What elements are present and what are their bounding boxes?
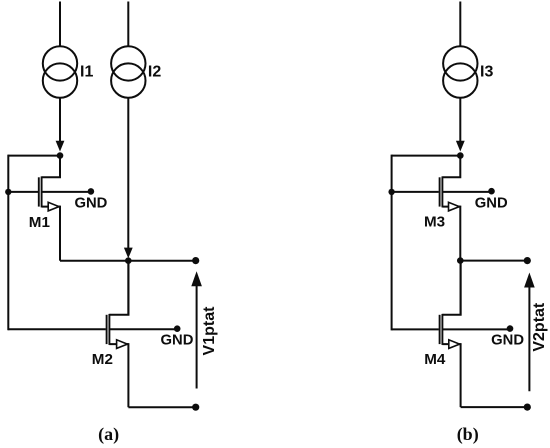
wire: middle node down to M4 drain bbox=[460, 261, 462, 316]
svg-text:V2ptat: V2ptat bbox=[531, 302, 548, 352]
node: summing junction bbox=[125, 257, 132, 264]
wire: M1 gate feed bbox=[8, 191, 38, 193]
wire: M3 source down to middle node bbox=[459, 206, 461, 261]
ground GND at M3 body bbox=[475, 188, 508, 212]
svg-text:I1: I1 bbox=[80, 63, 93, 80]
svg-text:V1ptat: V1ptat bbox=[201, 306, 218, 356]
transistor M2 bbox=[107, 261, 129, 349]
wire: M2 body to GND bbox=[109, 328, 177, 330]
wire: I3 top feed bbox=[459, 2, 461, 47]
node: middle junction of circuit b bbox=[457, 257, 464, 264]
wire: left rail (M3 diode-connection down to M4 gate) bbox=[391, 155, 393, 331]
net V1ptat measurement arrow bbox=[191, 271, 202, 388]
wire: I1 to M1 drain node, with current arrow bbox=[56, 98, 65, 152]
node: M3 gate junction bbox=[388, 189, 394, 195]
svg-text:M4: M4 bbox=[424, 351, 446, 368]
node: bottom terminal of circuit a bbox=[192, 404, 199, 411]
net V2ptat measurement arrow bbox=[524, 273, 535, 392]
node: M3 drain junction bbox=[457, 152, 464, 159]
wire: I2 down to summing node, with current arrow bbox=[124, 98, 133, 258]
wire: M4 body to GND bbox=[442, 328, 510, 330]
svg-text:I2: I2 bbox=[148, 63, 161, 80]
wire: I3 to M3 drain node, with current arrow bbox=[456, 98, 465, 152]
wire: bottom rail of circuit a bbox=[128, 406, 195, 408]
wire: M1 source down to summing node bbox=[59, 206, 61, 261]
ground GND at M4 body bbox=[491, 325, 524, 348]
wire: M2 gate feed from left rail bbox=[8, 328, 106, 330]
wire: I1 top feed bbox=[59, 2, 61, 47]
transistor M4 bbox=[440, 261, 461, 349]
wire: M2 source down bbox=[127, 343, 129, 407]
wire: I2 top feed bbox=[127, 2, 129, 47]
ground GND at M1 body bbox=[74, 188, 107, 211]
transistor M3 bbox=[440, 156, 461, 211]
svg-text:(a): (a) bbox=[98, 424, 119, 445]
wire: bottom rail of circuit b bbox=[461, 406, 528, 408]
node: M1 drain junction bbox=[57, 152, 64, 159]
svg-text:GND: GND bbox=[161, 332, 194, 348]
wire: M3 gate feed bbox=[392, 191, 439, 193]
wire: M1 body to GND bbox=[42, 191, 91, 193]
current source I3 bbox=[443, 46, 477, 98]
svg-text:M1: M1 bbox=[29, 214, 51, 231]
wire: M3 body to GND bbox=[442, 191, 491, 193]
wire: top-left link from M3 drain node to left rail bbox=[392, 155, 461, 157]
transistor M1 bbox=[39, 156, 60, 211]
node: M1 gate junction bbox=[5, 189, 11, 195]
svg-text:M2: M2 bbox=[92, 351, 113, 368]
svg-text:GND: GND bbox=[74, 195, 107, 211]
ground GND at M2 body bbox=[161, 325, 194, 348]
node: V2ptat output terminal bbox=[524, 257, 531, 264]
wire: middle node horizontal to V2ptat terminal bbox=[460, 260, 527, 262]
current source I1 bbox=[43, 46, 77, 98]
svg-text:I3: I3 bbox=[480, 63, 493, 80]
svg-text:M3: M3 bbox=[424, 214, 445, 231]
wire: summing node horizontal rail bbox=[60, 260, 196, 262]
wire: summing node down to M2 drain bbox=[127, 261, 129, 316]
svg-text:GND: GND bbox=[475, 196, 508, 212]
svg-text:(b): (b) bbox=[457, 424, 479, 445]
node: bottom terminal of circuit b bbox=[524, 404, 531, 411]
wire: top-left link from drain node to left rail bbox=[8, 155, 60, 157]
node: V1ptat output terminal bbox=[192, 257, 199, 264]
wire: left rail (diode-connection down to M2 gate) bbox=[7, 155, 9, 331]
wire: M4 source down bbox=[460, 343, 462, 407]
wire: M4 gate feed from left rail bbox=[392, 328, 439, 330]
svg-text:GND: GND bbox=[491, 333, 524, 349]
current source I2 bbox=[111, 46, 145, 98]
